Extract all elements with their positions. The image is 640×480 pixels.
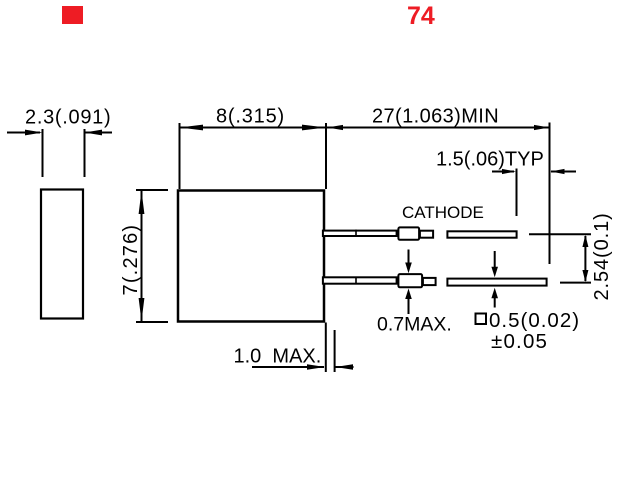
extension line left of 2.3 bbox=[42, 129, 44, 177]
dim line 8 bbox=[180, 127, 327, 129]
upper lead tube bbox=[323, 231, 397, 236]
dim 8 right arrow bbox=[302, 125, 326, 131]
svg-text:7(.276): 7(.276) bbox=[120, 224, 142, 296]
upper lead step tick bbox=[355, 230, 357, 237]
lower lead tube bbox=[323, 277, 397, 283]
svg-text:1.0 MAX.: 1.0 MAX. bbox=[234, 346, 322, 368]
dim 2.54 top arrow bbox=[582, 235, 588, 247]
lower lead stub bbox=[423, 278, 436, 285]
svg-text:74: 74 bbox=[407, 2, 435, 30]
extension line front view top-right bbox=[325, 123, 327, 189]
extension line package face bottom bbox=[325, 323, 327, 373]
square symbol bbox=[476, 314, 487, 325]
svg-text:0.5(0.02): 0.5(0.02) bbox=[489, 309, 580, 332]
dim 8 left arrow bbox=[180, 125, 204, 131]
extension line cathode lead end bbox=[516, 169, 518, 217]
dim 0.5 upper arrow bbox=[494, 251, 496, 267]
svg-text:1.5(.06)TYP: 1.5(.06)TYP bbox=[436, 149, 544, 171]
dim 1.0 left arrow bbox=[252, 366, 324, 368]
dim line 7 vertical bbox=[141, 191, 143, 321]
dim line 2.3 left arrow bbox=[7, 132, 112, 134]
extension line 2.54 lower bbox=[560, 282, 591, 284]
svg-text:8(.315): 8(.315) bbox=[216, 106, 285, 128]
side view outline bbox=[41, 190, 83, 319]
dim line 27 bbox=[327, 127, 550, 129]
red stamp block bbox=[62, 6, 83, 24]
tick front view top bbox=[136, 189, 168, 191]
upper lead crimp bbox=[398, 227, 419, 239]
dim 7 bottom arrow bbox=[139, 298, 145, 322]
dim 0.5 lower arrow bbox=[494, 298, 496, 308]
lower lead crimp bbox=[398, 274, 422, 287]
extension line right of 2.3 bbox=[84, 129, 86, 177]
svg-text:±0.05: ±0.05 bbox=[491, 330, 548, 353]
svg-text:CATHODE: CATHODE bbox=[402, 203, 484, 222]
dim 27 left arrow bbox=[327, 125, 343, 130]
svg-text:0.7MAX.: 0.7MAX. bbox=[377, 314, 452, 336]
svg-text:2.54(0.1): 2.54(0.1) bbox=[591, 212, 613, 300]
front view outline bbox=[178, 191, 324, 322]
upper lead stub bbox=[420, 231, 433, 238]
dim 1.0 right arrow bbox=[335, 366, 353, 368]
dim 7 top arrow bbox=[139, 191, 145, 215]
extension line standoff bbox=[334, 330, 336, 372]
tick front view bottom bbox=[136, 321, 168, 323]
dim 27 right arrow bbox=[534, 125, 550, 130]
extension line 2.54 upper bbox=[529, 233, 591, 235]
dim line 2.54 vertical bbox=[584, 236, 586, 281]
dim 0.7 lower arrow bbox=[408, 296, 410, 314]
upper lead far segment bbox=[447, 231, 516, 237]
svg-text:2.3(.091): 2.3(.091) bbox=[25, 107, 111, 129]
lower lead step tick bbox=[355, 277, 357, 284]
lower lead far segment bbox=[447, 279, 546, 286]
extension line lead tip right bbox=[549, 123, 551, 265]
dim 0.7 upper arrow bbox=[408, 250, 410, 267]
dim 1.5 right arrow bbox=[551, 171, 576, 173]
dim 1.5 left arrow bbox=[492, 171, 514, 173]
extension line front view top-left bbox=[179, 123, 181, 189]
dim line 2.3 right arrow bbox=[85, 130, 103, 136]
svg-text:27(1.063)MIN: 27(1.063)MIN bbox=[372, 106, 499, 128]
dim 2.54 bottom arrow bbox=[582, 270, 588, 282]
